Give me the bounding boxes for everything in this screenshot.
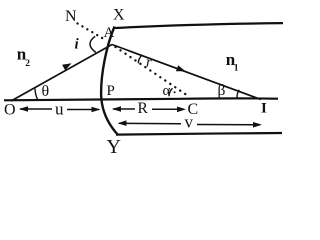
- svg-text:r: r: [146, 55, 152, 71]
- refracting surface arc X-P-Y: [101, 27, 118, 136]
- u measure double arrow: [19, 106, 101, 112]
- svg-text:N: N: [65, 8, 77, 25]
- svg-text:β: β: [218, 82, 226, 99]
- svg-text:A: A: [104, 25, 115, 41]
- angle beta arc at I: [237, 90, 239, 99]
- normal dotted line N to A: [78, 24, 104, 39]
- svg-text:P: P: [107, 83, 115, 99]
- v measure double arrow: [118, 120, 263, 127]
- svg-text:α: α: [163, 83, 171, 99]
- svg-text:1: 1: [234, 64, 239, 74]
- svg-text:C: C: [188, 101, 199, 118]
- angle theta arc at O: [35, 89, 38, 101]
- svg-text:I: I: [261, 101, 267, 117]
- svg-text:O: O: [4, 102, 16, 119]
- svg-text:2: 2: [25, 59, 30, 69]
- svg-text:θ: θ: [42, 83, 50, 100]
- top boundary line: [115, 23, 283, 28]
- incident ray O to A: [11, 45, 112, 102]
- angle r arc at A: [138, 55, 142, 64]
- refracted ray A to I: [112, 45, 261, 100]
- angle i arc at A: [90, 36, 96, 52]
- svg-text:X: X: [113, 7, 125, 24]
- angle alpha arc at C: [169, 88, 173, 96]
- dot near alpha mark: [174, 91, 176, 93]
- svg-text:Y: Y: [107, 136, 121, 157]
- svg-text:R: R: [138, 100, 149, 117]
- incident ray arrowhead: [62, 63, 71, 70]
- principal axis O-P-C-I: [4, 98, 278, 100]
- svg-text:u: u: [55, 100, 64, 119]
- svg-text:i: i: [75, 37, 80, 53]
- R measure double arrow: [112, 106, 186, 112]
- refracted ray arrowhead: [176, 65, 186, 71]
- bottom boundary line: [116, 133, 282, 135]
- normal dotted line A to C: [116, 47, 190, 97]
